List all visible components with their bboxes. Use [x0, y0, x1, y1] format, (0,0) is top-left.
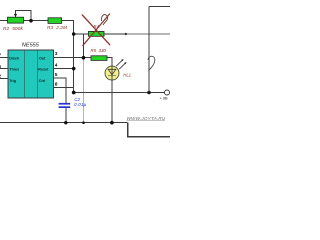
svg-text:3: 3 — [55, 51, 58, 57]
svg-text:8: 8 — [55, 82, 58, 88]
svg-text:Reset: Reset — [38, 68, 49, 72]
svg-text:Trig: Trig — [9, 79, 16, 83]
wire branch from R4 line down to out line — [83, 34, 85, 58]
wire left stub pin6 — [0, 68, 8, 70]
capacitor C2 plates — [59, 103, 71, 105]
node faint branch to ground — [82, 121, 85, 124]
LED arrows — [116, 60, 125, 69]
svg-text:R4: R4 — [93, 24, 99, 29]
resistor R5 body — [91, 56, 107, 61]
node LED to ground rail — [110, 121, 114, 125]
svg-text:0.01μ: 0.01μ — [74, 102, 87, 107]
svg-text:WWW.JOYTA.RU: WWW.JOYTA.RU — [127, 116, 166, 121]
wire R2 wiper loop — [16, 10, 32, 20]
wire faint from out junction down to bottom rail — [83, 58, 85, 123]
LED HL1 lead through — [111, 67, 113, 123]
resistor R4 body — [89, 31, 105, 36]
node rail right — [147, 91, 151, 95]
svg-text:R3 2.2M: R3 2.2M — [47, 25, 67, 30]
node rail left — [72, 91, 76, 95]
wire right vertical and top right corner — [149, 7, 170, 93]
node pin4 on X1 — [72, 67, 76, 71]
resistor R3 body — [48, 18, 62, 24]
annotation curl near R4 — [101, 15, 107, 25]
wiper arrowhead — [14, 14, 17, 17]
svg-text:Disch: Disch — [9, 56, 20, 60]
LED inner lead — [111, 66, 113, 80]
LED triangle — [108, 69, 116, 75]
node small on R4 net — [125, 33, 127, 35]
svg-text:Out: Out — [39, 56, 46, 60]
annotation red X over R4 — [82, 14, 110, 46]
wire left stub pin2 — [0, 78, 8, 80]
wire R4 net horizontal y34 — [74, 33, 126, 35]
wire reset pin4 stub — [54, 68, 74, 70]
node C2 to ground — [64, 121, 67, 124]
svg-text:Ctrl: Ctrl — [39, 79, 45, 83]
IC internal dividers — [25, 50, 38, 98]
terminal +9V — [165, 90, 170, 95]
LED cathode bar — [108, 74, 116, 76]
wire vcc pin8 stub — [54, 87, 74, 89]
svg-text:+ 9В: + 9В — [160, 96, 169, 101]
node junction R2 wiper to R3 — [29, 19, 33, 23]
svg-text:R2 500k: R2 500k — [3, 26, 23, 31]
resistor R2 body — [8, 17, 24, 23]
wire +9V rail — [74, 92, 165, 94]
wire ctrl pin5 to C2 — [54, 78, 66, 123]
wire out pin3 line to R5 and LED — [54, 58, 113, 67]
svg-text:NE555: NE555 — [22, 42, 40, 48]
wire top net from left edge through R2 R3 then down vertical X1 to +9V rail — [0, 21, 74, 93]
IC NE555 555-timer body — [8, 50, 54, 98]
svg-text:R5 330: R5 330 — [91, 48, 107, 53]
annotation curl on right wire — [148, 56, 155, 70]
wire ground rail bottom with step down right — [0, 122, 128, 124]
wire left stub pin7 — [0, 57, 8, 59]
node on X1 at R4 line — [72, 32, 76, 36]
svg-text:5: 5 — [55, 72, 58, 78]
svg-text:Thres: Thres — [9, 68, 19, 72]
node out junction — [82, 56, 86, 60]
svg-text:4: 4 — [55, 63, 58, 69]
wire step down to bottom edge line — [128, 123, 170, 137]
LED HL1 circle — [105, 66, 119, 80]
svg-text:HL1: HL1 — [123, 73, 131, 78]
